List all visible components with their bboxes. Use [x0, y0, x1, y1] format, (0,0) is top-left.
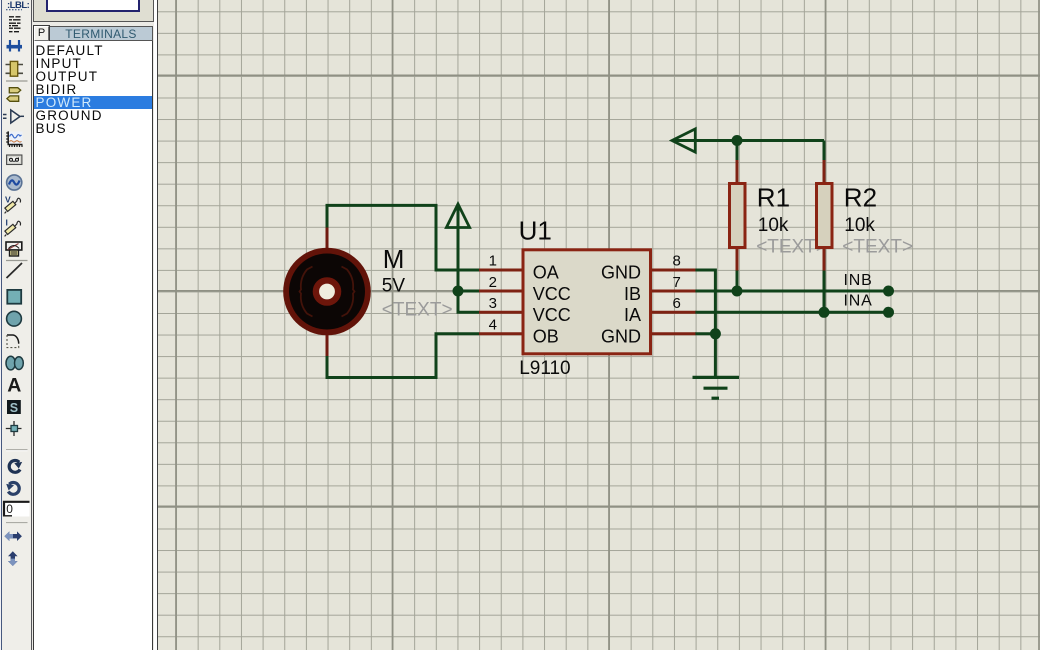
component tool icon — [6, 61, 24, 76]
2D circle tool icon — [7, 311, 22, 326]
svg-text:1: 1 — [489, 253, 497, 270]
svg-text:I: I — [6, 218, 8, 228]
svg-text:4: 4 — [489, 317, 497, 334]
svg-text:3: 3 — [489, 295, 497, 312]
wire IB net INB — [695, 290, 889, 293]
current probe tool icon — [5, 218, 21, 237]
svg-text:INA: INA — [844, 292, 873, 309]
U1 pins left — [479, 270, 523, 334]
terminal node INB — [883, 286, 894, 297]
wire motor bottom to pin4 — [327, 334, 479, 378]
svg-text:R2: R2 — [844, 183, 877, 213]
svg-text:8: 8 — [673, 253, 681, 270]
svg-text:VCC: VCC — [533, 284, 571, 304]
resistor R1 pins — [736, 160, 739, 271]
graph tool icon — [6, 131, 22, 147]
node junction R2 IA — [819, 307, 830, 318]
wire R2 bottom to IA net — [823, 270, 826, 312]
power terminal top rail (left arrow) — [672, 129, 695, 152]
separator groove — [6, 449, 28, 451]
svg-text:10k: 10k — [844, 215, 875, 236]
flip vertical icon — [8, 551, 18, 566]
svg-text:OA: OA — [533, 263, 559, 283]
TERMINALS header — [50, 26, 153, 41]
wire pin8 to ground rail — [695, 270, 715, 378]
motor M body — [283, 248, 371, 336]
svg-text:GND: GND — [601, 263, 641, 283]
separator — [6, 80, 28, 82]
virtual instrument tool icon — [6, 242, 22, 256]
terminal node INA — [883, 307, 894, 318]
terminals tool icon — [7, 88, 21, 102]
wire motor top to pin1 — [327, 205, 479, 270]
svg-text:5V: 5V — [382, 276, 406, 297]
wire R1 top — [736, 141, 739, 161]
svg-text:0: 0 — [6, 502, 13, 516]
label LBL tool icon — [6, 0, 30, 11]
wire junction tool icon — [7, 40, 23, 52]
resistor R2 pins — [823, 160, 826, 271]
wire R1 bottom to IB net — [736, 270, 739, 291]
preview window — [33, 0, 154, 22]
svg-text:10k: 10k — [758, 215, 789, 236]
wire pin5 to ground rail — [695, 332, 715, 335]
svg-text:M: M — [383, 244, 405, 274]
U1 pins right — [651, 270, 695, 334]
2D closed path tool icon — [6, 356, 23, 370]
svg-text:GND: GND — [601, 327, 641, 347]
tape recorder tool icon — [7, 155, 22, 165]
svg-text:VCC: VCC — [533, 305, 571, 325]
P button — [34, 26, 49, 41]
voltage probe tool icon — [5, 195, 21, 214]
ground symbol — [693, 377, 740, 398]
power terminal near motor (up arrow) — [446, 204, 469, 228]
svg-text:7: 7 — [673, 274, 681, 291]
wire top power rail — [673, 139, 824, 142]
svg-text:A: A — [7, 375, 21, 397]
generator tool icon — [7, 175, 22, 190]
resistor R1 body — [730, 184, 746, 248]
wire R2 top — [823, 141, 826, 161]
svg-text:<TEXT>: <TEXT> — [842, 236, 913, 257]
svg-text:2: 2 — [489, 274, 497, 291]
svg-text:R1: R1 — [757, 183, 790, 213]
2D arc tool icon — [7, 335, 19, 348]
chip U1 body — [523, 250, 651, 354]
svg-text:IA: IA — [624, 305, 641, 325]
marker tool icon — [6, 421, 22, 436]
separator — [6, 522, 28, 524]
2D symbol tool icon — [7, 400, 21, 415]
node junction motor VCC — [453, 286, 464, 297]
resistor R2 body — [817, 184, 833, 248]
flip horizontal icon — [4, 531, 22, 541]
svg-text:6: 6 — [673, 295, 681, 312]
svg-text:<TEXT>: <TEXT> — [382, 300, 453, 321]
svg-text:INB: INB — [844, 272, 873, 289]
node junction R1 IB — [732, 286, 743, 297]
object selector panel — [32, 0, 154, 650]
svg-text:IB: IB — [624, 284, 641, 304]
rotation angle edit box — [4, 501, 30, 517]
wire IA net INA — [695, 311, 889, 314]
wire junction to pin3 — [458, 291, 479, 312]
rotate anticlockwise icon — [5, 483, 19, 495]
script text tool icon — [9, 17, 21, 32]
motor M pins — [326, 228, 329, 357]
terminals list — [33, 41, 153, 650]
rotate clockwise icon — [9, 461, 23, 473]
node junction power rail R1 — [732, 135, 743, 146]
wire power terminal to pin2 — [458, 207, 479, 291]
device pin tool icon — [3, 110, 24, 123]
svg-text:OB: OB — [533, 327, 559, 347]
left toolbar — [0, 0, 32, 650]
svg-text:S: S — [10, 401, 18, 415]
svg-text:L9110: L9110 — [519, 358, 570, 379]
2D box tool icon — [7, 290, 21, 304]
node junction GND pin5 — [710, 328, 721, 339]
svg-text:U1: U1 — [519, 216, 552, 246]
separator — [6, 260, 28, 262]
2D line tool icon — [7, 263, 23, 278]
